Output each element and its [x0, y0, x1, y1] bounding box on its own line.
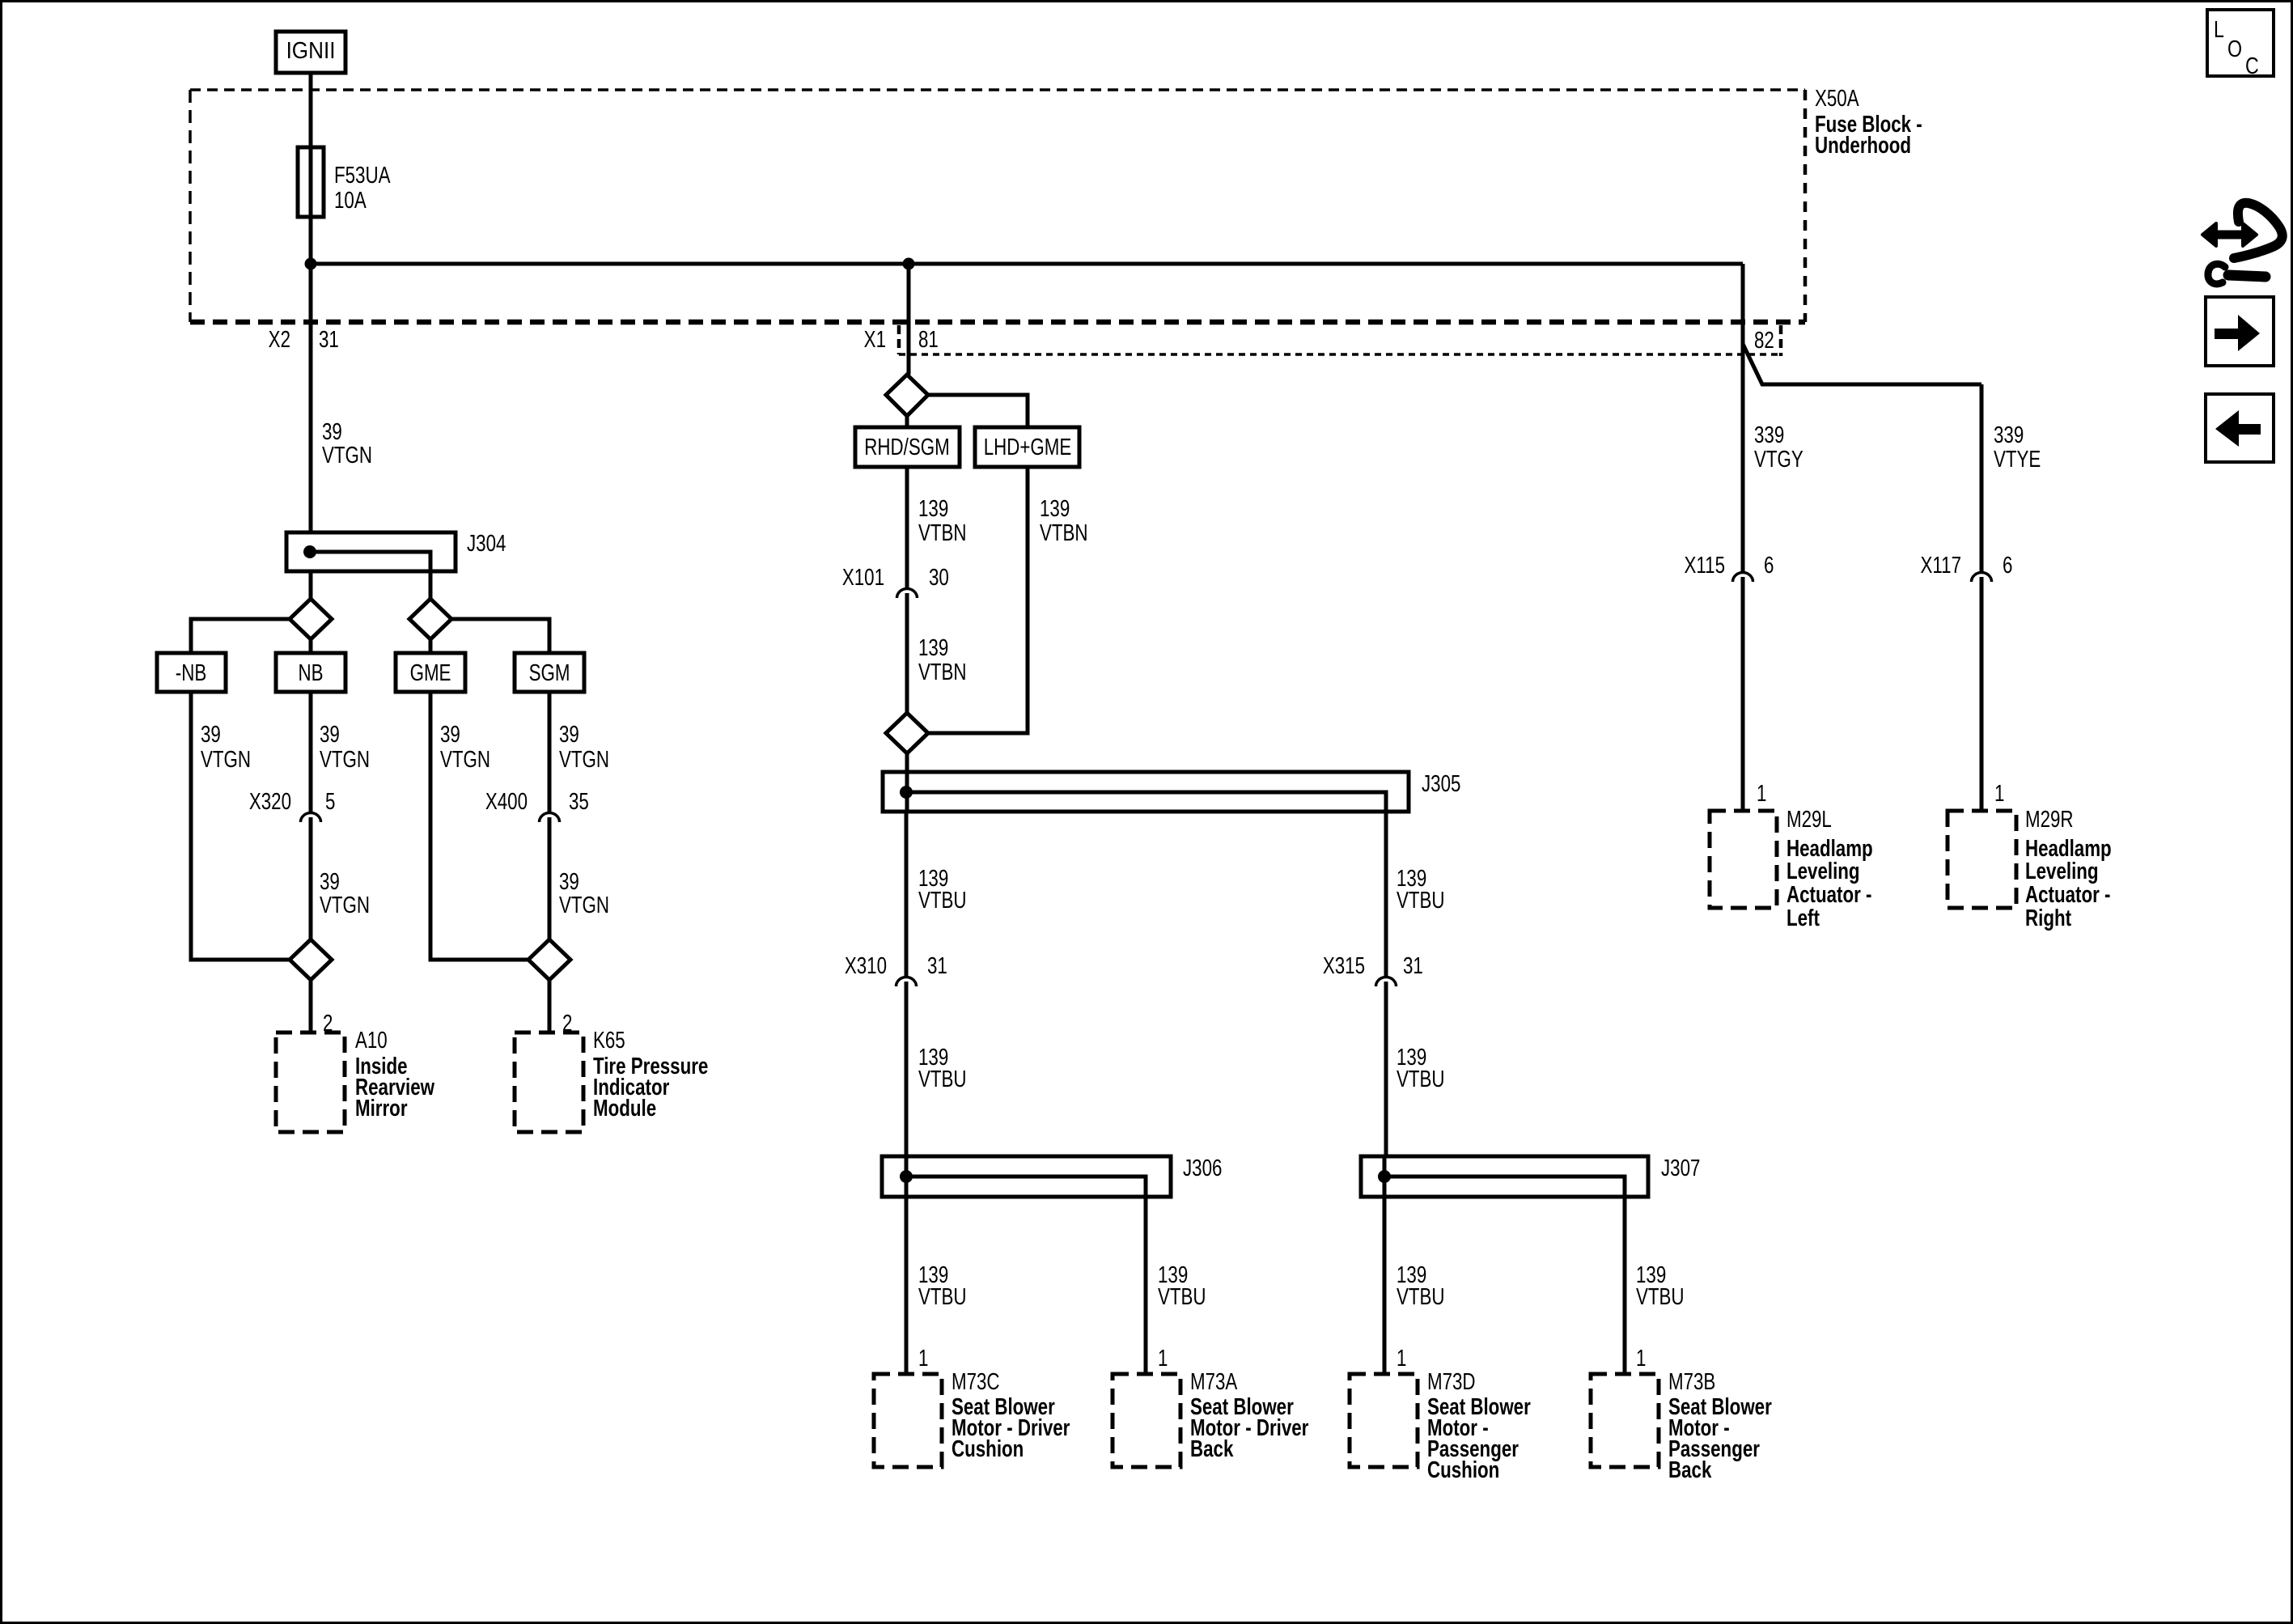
wire LHD+GME down	[928, 467, 1028, 733]
fuse block X50A dashed outline	[190, 88, 1805, 91]
svg-text:VTGN: VTGN	[559, 893, 609, 918]
svg-text:39: 39	[322, 419, 342, 444]
svg-text:VTBU: VTBU	[1158, 1284, 1206, 1309]
forward arrow box	[2206, 297, 2274, 366]
svg-text:6: 6	[1764, 553, 1774, 578]
svg-text:RHD/SGM: RHD/SGM	[864, 435, 949, 460]
svg-text:SGM: SGM	[529, 660, 570, 685]
svg-text:IGNII: IGNII	[286, 37, 336, 64]
svg-text:35: 35	[569, 789, 589, 814]
component M73C Seat Blower Motor - Driver Cushion	[874, 1374, 942, 1467]
wire branch diagonal to right	[1743, 344, 1981, 384]
svg-text:VTBU: VTBU	[918, 888, 967, 913]
svg-text:339: 339	[1994, 422, 2024, 447]
svg-text:M73B: M73B	[1668, 1369, 1715, 1394]
component M73A Seat Blower Motor - Driver Back	[1113, 1374, 1180, 1467]
svg-text:339: 339	[1754, 422, 1784, 447]
svg-text:39: 39	[320, 869, 340, 894]
svg-text:LHD+GME: LHD+GME	[984, 435, 1072, 460]
wire J304 to option split	[309, 571, 313, 599]
option merge diamond (K65)	[528, 939, 570, 980]
svg-text:M29R: M29R	[2025, 807, 2074, 832]
svg-text:Headlamp: Headlamp	[1787, 836, 1873, 861]
svg-text:30: 30	[929, 565, 949, 590]
svg-text:X1: X1	[864, 327, 886, 352]
option box -NB	[157, 653, 226, 692]
svg-text:Cushion: Cushion	[1427, 1457, 1499, 1482]
wire X315 to J307	[1384, 982, 1388, 1156]
wire J304 branch to option split 2	[429, 571, 433, 599]
wire J306 through	[905, 1156, 909, 1374]
svg-text:39: 39	[559, 722, 579, 747]
svg-text:VTGN: VTGN	[320, 747, 370, 772]
svg-text:M73D: M73D	[1427, 1369, 1476, 1394]
LOC legend box	[2207, 10, 2274, 76]
wire diamond to NB box	[309, 639, 313, 653]
splice pack J307	[1361, 1156, 1648, 1197]
svg-text:VTBU: VTBU	[918, 1066, 967, 1092]
svg-text:VTBN: VTBN	[918, 659, 967, 685]
wire X1 81 down to option split	[907, 264, 911, 375]
wire J306 branch to M73A	[1144, 1197, 1148, 1374]
wire SGM down to X400	[548, 692, 552, 812]
in-line connector X101 pin 30	[897, 589, 918, 599]
svg-text:-NB: -NB	[176, 660, 206, 685]
svg-text:X50A: X50A	[1815, 86, 1859, 111]
wire X101 to merge diamond	[905, 593, 909, 713]
component M73D Seat Blower Motor - Passenger Cushion	[1350, 1374, 1418, 1467]
svg-text:5: 5	[325, 789, 335, 814]
svg-text:139: 139	[918, 635, 948, 660]
svg-text:Headlamp: Headlamp	[2025, 836, 2112, 861]
in-line connector X310 pin 31	[896, 977, 917, 987]
wire -NB down	[191, 692, 289, 960]
option split diamond (NB)	[290, 599, 332, 639]
svg-text:1: 1	[918, 1346, 928, 1371]
svg-text:Mirror: Mirror	[355, 1096, 408, 1121]
svg-text:X101: X101	[842, 565, 884, 590]
svg-text:M29L: M29L	[1787, 807, 1832, 832]
svg-text:A10: A10	[355, 1028, 388, 1053]
svg-text:VTYE: VTYE	[1994, 447, 2041, 472]
svg-text:39: 39	[440, 722, 460, 747]
svg-text:139: 139	[1040, 496, 1070, 521]
svg-text:Module: Module	[593, 1096, 656, 1121]
svg-text:X2: X2	[269, 327, 290, 352]
svg-text:VTBU: VTBU	[1397, 1284, 1445, 1309]
option split diamond (GME/SGM)	[409, 599, 451, 639]
svg-text:M73A: M73A	[1190, 1369, 1238, 1394]
svg-text:J307: J307	[1661, 1155, 1700, 1181]
junction at X1 branch	[903, 258, 915, 270]
option box NB	[276, 653, 345, 692]
svg-text:K65: K65	[593, 1028, 625, 1053]
svg-text:31: 31	[319, 327, 339, 352]
component M29L Headlamp Leveling Actuator - Left	[1710, 811, 1777, 908]
svg-text:Back: Back	[1190, 1436, 1234, 1461]
svg-text:J305: J305	[1422, 771, 1460, 796]
option box GME	[396, 653, 465, 692]
wire diamond to RHD/SGM	[905, 416, 909, 427]
svg-text:VTGN: VTGN	[322, 443, 372, 468]
wire GME down	[430, 692, 528, 960]
svg-text:Actuator -: Actuator -	[2025, 882, 2110, 907]
wire to SGM branch	[451, 619, 549, 653]
svg-text:Leveling: Leveling	[2025, 859, 2099, 884]
svg-text:1: 1	[1158, 1346, 1168, 1371]
junction at fuse output	[305, 258, 317, 270]
svg-text:VTBU: VTBU	[1636, 1284, 1685, 1309]
svg-text:1: 1	[1757, 781, 1766, 806]
svg-text:M73C: M73C	[952, 1369, 1000, 1394]
wire merge to K65 pin 2	[548, 980, 552, 1032]
wire J305 left to X310	[905, 812, 909, 976]
svg-text:1: 1	[1636, 1346, 1646, 1371]
svg-text:Left: Left	[1787, 905, 1820, 931]
component M73B Seat Blower Motor - Passenger Back	[1591, 1374, 1659, 1467]
svg-text:VTBU: VTBU	[1397, 1066, 1445, 1092]
option box SGM	[515, 653, 584, 692]
svg-text:31: 31	[927, 953, 947, 978]
svg-text:39: 39	[201, 722, 221, 747]
svg-text:VTBN: VTBN	[918, 520, 967, 545]
svg-text:31: 31	[1403, 953, 1423, 978]
svg-text:X400: X400	[485, 789, 528, 814]
in-line connector X320 pin 5	[301, 813, 321, 823]
svg-text:VTGY: VTGY	[1754, 447, 1803, 472]
wire merge to J305	[905, 753, 909, 812]
svg-text:Back: Back	[1668, 1457, 1712, 1482]
in-line connector X115 pin 6	[1733, 573, 1753, 583]
wire J307 branch to M73B	[1623, 1197, 1627, 1374]
wire J305 right to X315	[1384, 812, 1388, 976]
svg-text:Underhood: Underhood	[1815, 133, 1911, 158]
svg-text:Right: Right	[2025, 905, 2071, 931]
X1 connector strip dashed	[899, 353, 1781, 356]
svg-text:VTGN: VTGN	[440, 747, 490, 772]
svg-text:39: 39	[320, 722, 340, 747]
component A10 Inside Rearview Mirror	[276, 1032, 345, 1132]
wire J307 through	[1383, 1156, 1387, 1374]
in-line connector X117 pin 6	[1972, 573, 1992, 583]
svg-text:Actuator -: Actuator -	[1787, 882, 1871, 907]
option box RHD/SGM	[855, 427, 960, 467]
option split diamond (RHD/LHD)	[886, 375, 928, 416]
svg-text:C: C	[2245, 52, 2259, 78]
svg-text:6: 6	[2003, 553, 2012, 578]
svg-text:Cushion: Cushion	[952, 1436, 1024, 1461]
wire bus from fuse junction to pin 82	[311, 262, 1743, 266]
svg-text:VTBN: VTBN	[1040, 520, 1088, 545]
svg-text:L: L	[2214, 15, 2224, 42]
splice pack J304	[286, 532, 456, 571]
component K65 Tire Pressure Indicator Module	[515, 1032, 583, 1132]
svg-text:82: 82	[1754, 328, 1774, 353]
svg-text:VTBU: VTBU	[918, 1284, 967, 1309]
splice pack J306	[882, 1156, 1171, 1197]
option box LHD+GME	[975, 427, 1079, 467]
wire X310 to J306	[905, 982, 909, 1156]
back arrow box	[2206, 394, 2274, 462]
svg-text:NB: NB	[298, 660, 323, 685]
node IGNII	[276, 32, 345, 73]
harness routing icon	[2202, 203, 2282, 284]
svg-text:GME: GME	[410, 660, 451, 685]
svg-text:1: 1	[1994, 781, 2004, 806]
wire RHD/SGM to X101	[905, 467, 909, 587]
svg-text:81: 81	[918, 327, 939, 352]
svg-text:X310: X310	[845, 953, 887, 978]
wire pin 82 down to M29L	[1741, 264, 1745, 571]
option merge diamond (A10)	[290, 939, 332, 980]
svg-text:X320: X320	[249, 789, 291, 814]
wire diamond to GME box	[429, 639, 433, 653]
wire X400 to merge diamond	[548, 817, 552, 939]
splice pack J305	[883, 772, 1409, 812]
wire diamond to LHD+GME	[928, 395, 1028, 427]
wire merge to A10 pin 2	[309, 980, 313, 1032]
svg-text:VTGN: VTGN	[559, 747, 609, 772]
svg-text:X115: X115	[1685, 553, 1725, 578]
in-line connector X400 pin 35	[540, 813, 560, 823]
wire right vertical to M29R	[1980, 384, 1984, 571]
svg-text:F53UA: F53UA	[334, 163, 391, 188]
wire IGNII down through fuse to J304	[309, 73, 313, 532]
wire to -NB branch	[191, 619, 290, 653]
svg-text:39: 39	[559, 869, 579, 894]
svg-text:10A: 10A	[334, 188, 367, 213]
svg-text:X117: X117	[1921, 553, 1961, 578]
svg-text:J306: J306	[1183, 1155, 1222, 1181]
svg-text:J304: J304	[467, 531, 506, 556]
wire NB down to X320	[309, 692, 313, 812]
svg-text:VTGN: VTGN	[320, 893, 370, 918]
in-line connector X315 pin 31	[1376, 977, 1397, 987]
svg-text:X315: X315	[1323, 953, 1365, 978]
svg-text:O: O	[2227, 35, 2242, 61]
component M29R Headlamp Leveling Actuator - Right	[1948, 811, 2016, 908]
wire X320 to merge diamond	[309, 817, 313, 939]
svg-text:139: 139	[918, 496, 948, 521]
svg-text:1: 1	[1397, 1346, 1406, 1371]
svg-text:Leveling: Leveling	[1787, 859, 1860, 884]
svg-text:VTGN: VTGN	[201, 747, 251, 772]
fuse F53UA 10A	[298, 147, 324, 217]
svg-text:VTBU: VTBU	[1397, 888, 1445, 913]
option merge diamond (J305)	[886, 713, 928, 753]
